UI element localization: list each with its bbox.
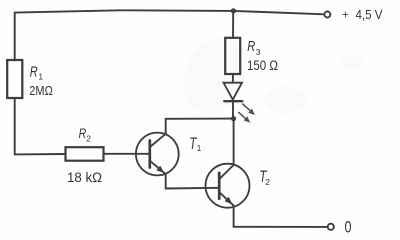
svg-text:3: 3 (256, 47, 261, 57)
LED light arrow 2 (239, 113, 250, 123)
wire to R2 (15, 153, 66, 155)
wire T1 emitter to T2 base (166, 187, 220, 190)
svg-text:2: 2 (86, 134, 91, 144)
svg-text:150 Ω: 150 Ω (247, 58, 278, 73)
resistor R3 (225, 38, 240, 74)
svg-text:18 kΩ: 18 kΩ (67, 170, 102, 185)
svg-text:+: + (342, 9, 349, 21)
terminal +4.5V (324, 12, 330, 18)
LED D1 (224, 83, 243, 119)
wire R2 to T1 base (104, 153, 150, 155)
wire left rail upper (14, 13, 16, 61)
svg-text:R: R (247, 38, 255, 55)
svg-text:2: 2 (265, 177, 270, 187)
wire R3 branch from top (232, 11, 234, 38)
wire T2 emitter down (233, 205, 235, 227)
svg-text:R: R (79, 125, 87, 141)
wire top rail (15, 10, 325, 14)
svg-text:R: R (30, 64, 38, 81)
scan smudge background (171, 26, 362, 124)
svg-text:2MΩ: 2MΩ (29, 83, 53, 98)
wire T1 emitter down (165, 174, 167, 189)
svg-text:4,5 V: 4,5 V (356, 7, 383, 22)
transistor T1 (136, 133, 179, 176)
resistor R2 (66, 147, 104, 161)
wire T2 collector up to node (233, 119, 235, 165)
terminal 0 (328, 224, 334, 230)
wire T1 collector up (165, 119, 167, 134)
svg-text:1: 1 (197, 143, 202, 153)
wire collector horizontal to node (166, 118, 234, 120)
node junction LED/T2 (231, 116, 236, 121)
svg-text:0: 0 (345, 219, 352, 237)
transistor T2 (206, 164, 250, 208)
resistor R1 (7, 60, 22, 98)
svg-text:1: 1 (38, 72, 43, 82)
LED light arrow 1 (243, 104, 255, 115)
node junction top (231, 8, 236, 13)
wire R3 to LED (232, 74, 234, 83)
wire bottom rail (234, 226, 328, 228)
wire left rail lower (14, 98, 16, 154)
